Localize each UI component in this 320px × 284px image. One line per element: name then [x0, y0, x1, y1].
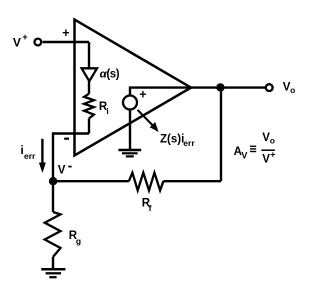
svg-text:i: i [106, 106, 108, 116]
op-amp U1 triangle [75, 20, 192, 156]
wire inverting input horizontal [53, 132, 89, 134]
arrow pointer Z(s)ierr [138, 110, 153, 126]
ground G1 [41, 268, 65, 271]
svg-text:α(s): α(s) [100, 68, 120, 80]
wire below Ri [88, 118, 90, 133]
ground G2 [118, 149, 141, 151]
node V- junction [49, 177, 57, 185]
svg-text:+: + [139, 87, 146, 101]
fraction bar [261, 149, 275, 151]
wire below arrow [88, 81, 90, 94]
wire V- to Rf [53, 180, 129, 182]
dependent source alpha(s) arrow [82, 68, 97, 81]
svg-text:Z(s)i: Z(s)i [160, 133, 184, 145]
svg-text:err: err [183, 138, 195, 148]
wire Rf to feedback [163, 180, 221, 182]
junction output node [216, 83, 224, 91]
svg-text:f: f [149, 203, 152, 213]
wire output [130, 88, 265, 95]
svg-text:+: + [62, 26, 69, 40]
svg-text:err: err [24, 151, 36, 161]
resistor Rg [45, 212, 61, 257]
wire V- to Rg [52, 181, 54, 212]
resistor Rf [129, 173, 164, 191]
svg-text:V: V [262, 153, 270, 165]
wire V- vertical [52, 132, 54, 181]
svg-text:V: V [13, 35, 21, 49]
wire branch top [88, 42, 90, 68]
terminal Vo [266, 84, 273, 91]
svg-text:o: o [290, 85, 295, 95]
resistor Ri [84, 94, 94, 119]
svg-text:V: V [58, 165, 66, 177]
terminal V+ [35, 39, 42, 46]
label - inverting input [64, 138, 69, 140]
svg-text:V: V [241, 151, 247, 161]
identical-to sign [250, 145, 256, 147]
wire Rg to ground [52, 257, 54, 268]
dependent source Z [123, 96, 137, 110]
current arrow i_err [41, 139, 43, 164]
svg-text:o: o [270, 135, 275, 145]
svg-text:g: g [76, 236, 81, 246]
wire feedback vertical [220, 88, 222, 182]
wire V+ input [43, 41, 89, 43]
wire source to ground [129, 110, 131, 149]
svg-text:+: + [270, 150, 275, 160]
svg-text:+: + [22, 32, 27, 42]
